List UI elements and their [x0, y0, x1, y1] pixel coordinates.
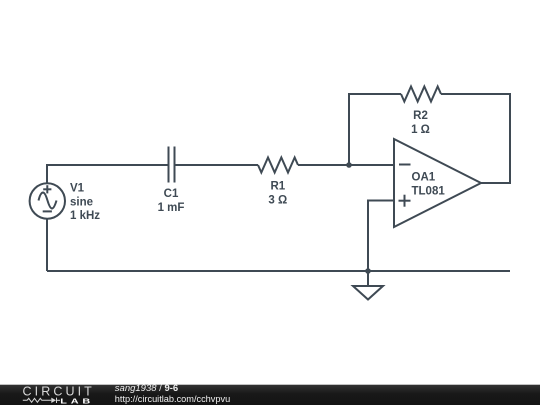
svg-text:OA1: OA1 [412, 172, 436, 184]
ground symbol [353, 286, 383, 300]
wire: feedback from node up and right to R2 [349, 94, 401, 165]
svg-text:1 kHz: 1 kHz [70, 210, 100, 222]
resistor R1 zigzag [258, 158, 298, 173]
svg-text:R1: R1 [270, 181, 285, 193]
svg-text:V1: V1 [70, 183, 85, 195]
svg-text:C1: C1 [164, 188, 179, 200]
svg-text:3 Ω: 3 Ω [268, 195, 287, 207]
wire: C1 right plate to R1 [176, 164, 259, 166]
wire: V1 bottom to bottom rail [46, 219, 48, 272]
junction node at ground rail [365, 268, 371, 274]
svg-text:R2: R2 [413, 110, 428, 122]
svg-text:1 mF: 1 mF [158, 202, 185, 214]
voltage source V1 [30, 183, 65, 218]
wire: plus input branch from op-amp down to bottom rail [368, 201, 394, 272]
capacitor C1 left plate [168, 147, 170, 183]
junction node at inverting input [346, 162, 352, 168]
svg-text:sang1938 / 9-6: sang1938 / 9-6 [115, 383, 178, 394]
capacitor C1 right plate [174, 147, 176, 183]
wire: R2 right down to op-amp output [441, 94, 510, 183]
wire: R1 to op-amp minus input [298, 164, 394, 166]
svg-text:http://circuitlab.com/cchvpvu: http://circuitlab.com/cchvpvu [115, 394, 230, 404]
wire: top-left corner from V1 up and right to C1 left plate [47, 165, 168, 184]
op-amp OA1 triangle [394, 139, 481, 227]
resistor R2 zigzag [401, 87, 441, 102]
wire: bottom rail [47, 270, 510, 272]
svg-text:sine: sine [70, 197, 93, 209]
svg-text:TL081: TL081 [412, 186, 446, 198]
svg-text:1 Ω: 1 Ω [411, 124, 430, 136]
svg-text:LAB: LAB [60, 397, 94, 405]
CircuitLab logo resistor-diode line [23, 398, 60, 403]
footer bar [0, 385, 540, 405]
wire: ground stub [367, 271, 369, 286]
